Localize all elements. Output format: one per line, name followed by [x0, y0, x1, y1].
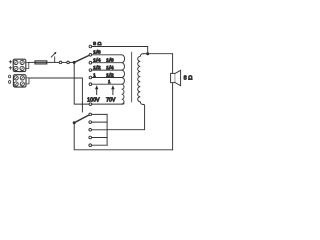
jumper bracket TB1	[26, 62, 29, 68]
label + (TB1 lower)	[9, 67, 12, 70]
wire S2 pivot to bottom rail	[74, 123, 172, 150]
tap contact 7 (winding common)	[89, 103, 92, 106]
tap contact 2	[89, 54, 92, 57]
svg-text:100V: 100V	[87, 97, 100, 103]
label 0 (TB2 upper)	[9, 75, 11, 78]
label 0 (TB2 lower)	[9, 81, 11, 84]
svg-text:1/4: 1/4	[93, 58, 101, 63]
jumper bracket TB2	[26, 78, 29, 84]
svg-text:1/2: 1/2	[106, 72, 114, 77]
svg-text:8 Ω: 8 Ω	[184, 76, 193, 82]
tap contact 1 (8 ohm)	[89, 45, 92, 48]
terminal block TB1 (+ input)	[13, 59, 26, 71]
wire fuse to connector J1	[47, 61, 59, 63]
connector J2	[67, 61, 70, 64]
wire secondary bottom to S2 bus	[107, 104, 145, 129]
svg-text:1/8: 1/8	[93, 50, 101, 55]
svg-text:1/4: 1/4	[106, 65, 114, 70]
wire secondary top to junction	[143, 53, 148, 55]
wire common: pivot drop to contact 7 and winding bottom	[74, 62, 124, 104]
speaker LS1	[171, 70, 181, 85]
arrow 100V	[95, 85, 98, 94]
tap line row2	[92, 54, 122, 56]
S2 bus	[106, 114, 108, 145]
svg-text:1: 1	[108, 79, 111, 84]
switch S2 pivot	[73, 121, 76, 124]
secondary winding	[138, 54, 144, 105]
terminal block TB2 (0 return)	[13, 75, 26, 87]
S2 contact line 2	[92, 121, 108, 123]
label + (TB1 upper)	[9, 61, 12, 64]
breaker trip arrow	[51, 52, 56, 63]
fuse F1	[35, 61, 47, 64]
transformer core	[131, 52, 133, 102]
tap line row5	[92, 77, 122, 79]
switch S2 contact 4	[89, 136, 92, 139]
wire TB1 to fuse	[29, 61, 35, 63]
switch S2 contact 3	[89, 129, 92, 132]
tap line row6	[92, 83, 122, 85]
switch S2 contact 2	[89, 121, 92, 124]
switch S2 contact 1	[89, 113, 92, 116]
svg-text:1/2: 1/2	[93, 65, 101, 70]
autotransformer primary winding	[122, 55, 125, 104]
connector J1	[59, 61, 62, 64]
selector switch S1 pivot	[73, 61, 76, 64]
wire J1 to J2	[62, 61, 67, 63]
tap contact 3	[89, 61, 92, 64]
svg-text:8 Ω: 8 Ω	[93, 41, 102, 47]
wire 8-ohm direct line	[92, 47, 148, 54]
tap contact 6	[89, 83, 92, 86]
tap line row4	[92, 69, 122, 71]
tap line row3	[92, 62, 122, 64]
S2 contact line 4	[92, 137, 108, 139]
wire junction to speaker top	[148, 54, 173, 74]
S2 contact line 3	[92, 129, 108, 131]
wire bottom rail to speaker bottom	[172, 83, 174, 150]
junction node	[146, 52, 149, 55]
tap contact 4	[89, 69, 92, 72]
S2 contact line 1	[92, 113, 108, 115]
svg-text:1/8: 1/8	[106, 58, 114, 63]
return wire TB2 to S2 area	[29, 78, 82, 112]
arrow 70V	[111, 85, 114, 94]
selector switch S1 wiper arm	[74, 55, 89, 62]
svg-text:1: 1	[93, 72, 96, 77]
svg-text:70V: 70V	[106, 97, 116, 103]
switch S2 contact 5	[89, 144, 92, 147]
S2 contact line 5	[92, 144, 108, 146]
tap contact 5	[89, 76, 92, 79]
switch S2 wiper arm	[74, 115, 89, 123]
wire J2 to selector pivot	[69, 61, 74, 63]
